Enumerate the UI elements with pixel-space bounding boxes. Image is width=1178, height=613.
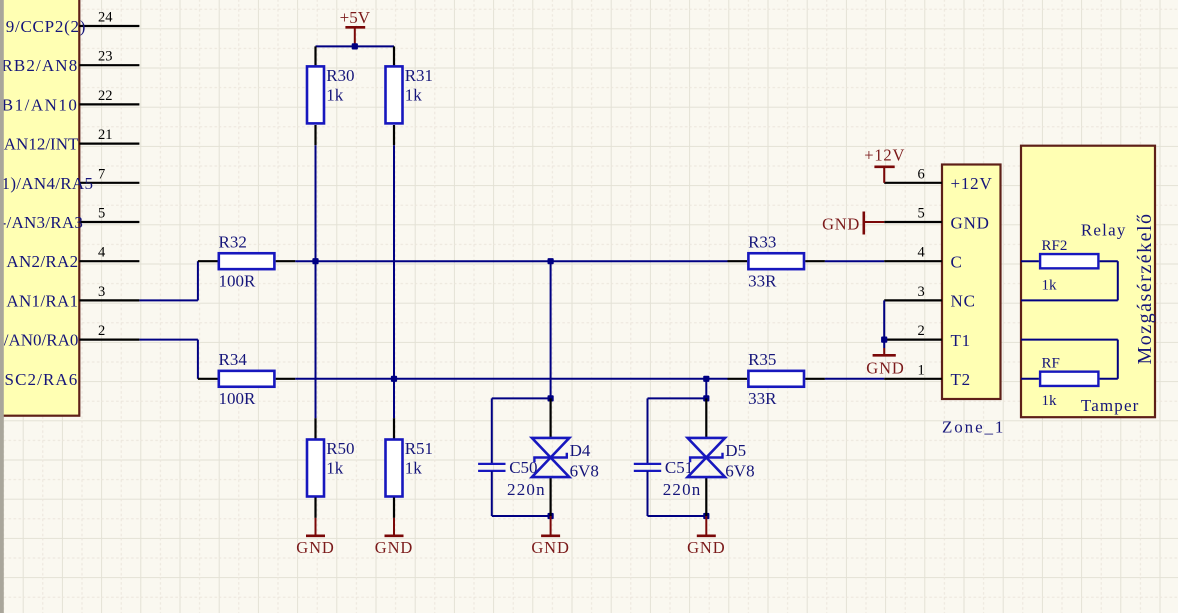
svg-text:3: 3 [98,284,105,300]
svg-text:RF2: RF2 [1042,238,1068,254]
svg-text:T1: T1 [951,331,971,350]
svg-text:R35: R35 [748,350,776,369]
svg-text:AN1/RA1: AN1/RA1 [6,291,78,310]
svg-text:22: 22 [98,88,113,104]
svg-text:7: 7 [98,166,105,182]
svg-text:100R: 100R [219,389,257,408]
svg-text:5: 5 [98,206,105,222]
svg-text:Zone_1: Zone_1 [942,417,1005,436]
svg-text:+12V: +12V [864,145,905,164]
svg-text:+12V: +12V [951,174,993,193]
svg-text:21: 21 [98,127,113,143]
svg-text:Relay: Relay [1081,221,1127,240]
svg-text:33R: 33R [748,389,777,408]
svg-text:NC: NC [951,292,976,311]
svg-text:Tamper: Tamper [1081,396,1140,415]
svg-text:R50: R50 [326,439,354,458]
svg-text:GND: GND [866,359,904,378]
svg-text:24: 24 [98,10,113,26]
svg-text:6V8: 6V8 [570,462,599,481]
svg-text:D4: D4 [570,441,591,460]
svg-text:3: 3 [918,284,925,300]
svg-text:AN12/INT: AN12/INT [4,135,79,154]
svg-text:220n: 220n [507,480,546,499]
svg-text:4: 4 [98,245,106,261]
svg-text:1k: 1k [405,459,423,478]
svg-text:+5V: +5V [340,8,371,27]
svg-text:1k: 1k [1042,393,1058,409]
svg-text:R51: R51 [405,439,433,458]
svg-text:T2: T2 [951,370,971,389]
svg-text:6: 6 [918,166,925,182]
svg-text:R31: R31 [405,66,433,85]
svg-text:1: 1 [918,362,925,378]
svg-text:9/CCP2(2): 9/CCP2(2) [6,17,86,36]
svg-text:220n: 220n [663,480,702,499]
svg-text:GND: GND [951,213,990,232]
svg-text:GND: GND [687,538,725,557]
svg-text:RB2/AN8: RB2/AN8 [1,56,78,75]
svg-text:/AN0/RA0: /AN0/RA0 [4,331,79,350]
svg-text:6V8: 6V8 [725,462,754,481]
svg-text:B1/AN10: B1/AN10 [2,95,79,114]
svg-text:SC2/RA6: SC2/RA6 [5,370,79,389]
svg-text:GND: GND [296,538,334,557]
svg-text:R34: R34 [219,350,248,369]
svg-text:1)/AN4/RA5: 1)/AN4/RA5 [2,174,94,193]
svg-text:1k: 1k [1042,277,1058,293]
svg-text:1k: 1k [326,86,344,105]
svg-text:R33: R33 [748,233,776,252]
svg-text:R30: R30 [326,66,354,85]
svg-text:GND: GND [531,538,569,557]
svg-text:-/AN3/RA3: -/AN3/RA3 [1,213,84,232]
svg-text:C: C [951,253,963,272]
svg-text:2: 2 [918,323,925,339]
svg-text:1k: 1k [326,459,344,478]
svg-text:2: 2 [98,323,105,339]
svg-text:AN2/RA2: AN2/RA2 [6,252,78,271]
svg-text:4: 4 [918,245,926,261]
svg-text:RF: RF [1042,356,1060,372]
svg-text:D5: D5 [725,441,746,460]
svg-text:R32: R32 [219,233,247,252]
svg-text:GND: GND [822,215,860,234]
svg-text:100R: 100R [219,271,257,290]
svg-text:GND: GND [375,538,413,557]
svg-text:33R: 33R [748,271,777,290]
svg-text:23: 23 [98,49,113,65]
svg-text:5: 5 [918,206,925,222]
svg-text:Mozgásérzékelő: Mozgásérzékelő [1134,212,1156,364]
svg-text:1k: 1k [405,86,423,105]
